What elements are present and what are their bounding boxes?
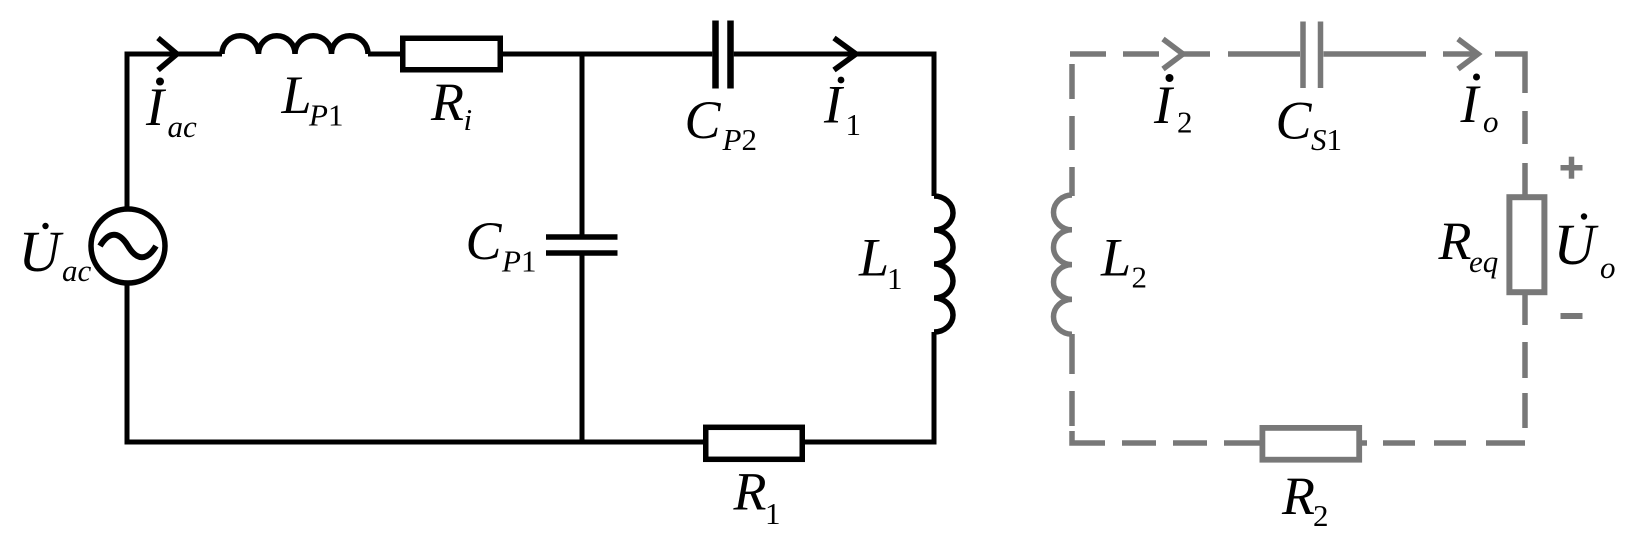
svg-text:ac: ac (62, 253, 92, 288)
svg-text:C: C (466, 211, 503, 271)
svg-text:L: L (858, 228, 889, 288)
svg-text:2: 2 (1132, 260, 1148, 295)
svg-text:1: 1 (846, 107, 862, 142)
svg-text:I: I (1153, 75, 1175, 135)
svg-text:R: R (430, 72, 464, 132)
svg-text:i: i (464, 102, 473, 137)
svg-text:R: R (733, 462, 767, 522)
svg-text:1: 1 (765, 496, 781, 531)
svg-text:U: U (1554, 212, 1600, 277)
svg-text:P1: P1 (501, 244, 536, 279)
svg-text:R: R (1281, 466, 1315, 526)
svg-text:eq: eq (1469, 244, 1498, 279)
svg-text:U: U (19, 219, 65, 284)
svg-text:C: C (1276, 91, 1313, 151)
svg-text:2: 2 (1177, 105, 1193, 140)
svg-text:S1: S1 (1311, 122, 1342, 157)
svg-text:o: o (1600, 250, 1616, 285)
svg-text:o: o (1483, 104, 1499, 139)
svg-text:2: 2 (1313, 498, 1329, 533)
svg-text:P2: P2 (722, 122, 757, 157)
svg-text:I: I (1460, 74, 1482, 134)
svg-text:C: C (685, 90, 722, 150)
svg-text:L: L (1100, 228, 1131, 288)
svg-text:I: I (823, 75, 845, 135)
svg-text:R: R (1438, 211, 1472, 271)
svg-text:ac: ac (168, 109, 198, 144)
svg-text:I: I (145, 77, 167, 137)
svg-text:P1: P1 (308, 98, 343, 133)
svg-text:L: L (281, 65, 312, 125)
svg-text:1: 1 (887, 261, 903, 296)
